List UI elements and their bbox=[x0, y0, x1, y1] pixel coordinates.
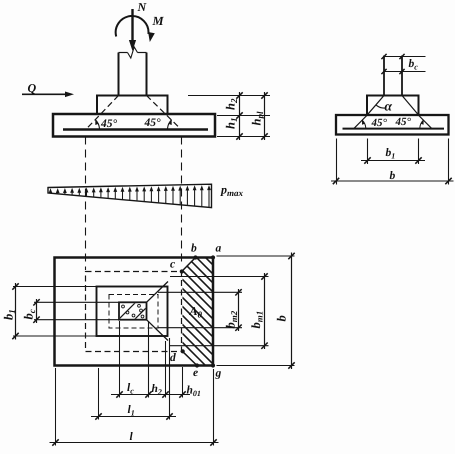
svg-text:α: α bbox=[385, 99, 393, 114]
punching face trapezoid upper slant bbox=[147, 282, 169, 303]
svg-text:l1: l1 bbox=[128, 404, 135, 418]
extension line column right bbox=[148, 321, 150, 398]
svg-text:a: a bbox=[216, 243, 222, 255]
pedestal outline (right) bbox=[367, 96, 419, 116]
svg-text:45°: 45° bbox=[100, 118, 118, 130]
extension line slab top bbox=[217, 115, 270, 117]
extension line pedestal top bbox=[188, 95, 270, 97]
dimension line bm1 bbox=[264, 273, 266, 349]
svg-text:h1: h1 bbox=[224, 118, 240, 129]
dimension line l1 bbox=[91, 416, 176, 418]
extension line footing left bbox=[55, 368, 57, 446]
svg-text:45°: 45° bbox=[144, 117, 162, 129]
extension line section c-d bbox=[182, 367, 184, 398]
dimension line b1 (right elev) bbox=[361, 160, 425, 162]
soil pressure diagram outline bbox=[48, 184, 212, 207]
angle alpha arc bbox=[376, 105, 386, 108]
svg-text:b: b bbox=[390, 170, 396, 182]
dashed projection line right bbox=[181, 137, 183, 265]
extension line bottom edge b bbox=[217, 365, 295, 367]
svg-text:lc: lc bbox=[127, 382, 134, 396]
node c bbox=[180, 269, 184, 273]
plan: pedestal outline bbox=[97, 287, 168, 337]
plan: column cross-section bbox=[119, 302, 147, 319]
extension lines column width bc bbox=[34, 301, 119, 303]
svg-text:b1: b1 bbox=[2, 309, 18, 320]
dimension line b1 (plan left) bbox=[15, 283, 17, 340]
dimension line bc upper bbox=[384, 56, 426, 58]
soil pressure arrows bbox=[50, 191, 52, 193]
extension lines bm1 bbox=[170, 276, 269, 278]
svg-text:e: e bbox=[193, 367, 198, 379]
svg-text:N: N bbox=[137, 0, 148, 14]
punching face trapezoid lower slant bbox=[147, 320, 169, 341]
dimension line b (plan right) bbox=[291, 253, 293, 370]
node a bbox=[211, 255, 215, 259]
bottom reinforcement line bbox=[63, 128, 208, 130]
svg-text:h2: h2 bbox=[224, 98, 240, 110]
extension line l1 right bbox=[169, 338, 171, 420]
svg-text:hpl: hpl bbox=[250, 111, 266, 125]
svg-text:h2: h2 bbox=[152, 383, 162, 397]
slab 45 line left (right elev) bbox=[354, 115, 368, 129]
column section hatching bbox=[112, 298, 163, 331]
dimension line hpl bbox=[264, 92, 266, 140]
svg-text:45°: 45° bbox=[371, 117, 388, 129]
dimension line bc (plan left) bbox=[36, 299, 38, 323]
column break symbol at cut bbox=[119, 52, 128, 54]
svg-text:b: b bbox=[275, 315, 289, 321]
extension lines b1 (right elev) bbox=[367, 139, 369, 165]
45-deg punching line left (dashed) bbox=[86, 96, 119, 130]
slab outline (right) bbox=[336, 115, 449, 135]
angle arc 45 right (right elev) bbox=[420, 120, 424, 128]
svg-text:pmax: pmax bbox=[220, 183, 244, 199]
extension lines pedestal width b1 bbox=[13, 286, 97, 288]
hatched design area A0 bbox=[160, 194, 225, 412]
45-deg punching line right (dashed) bbox=[147, 96, 182, 130]
node d bbox=[181, 349, 185, 353]
extension lines bm2 bbox=[158, 291, 242, 293]
dashed projection line left bbox=[85, 137, 87, 271]
plan: dashed punching base contour bbox=[86, 272, 182, 352]
svg-text:bc: bc bbox=[409, 58, 419, 72]
extension line l1 left bbox=[98, 368, 100, 420]
angle arc right 45deg bbox=[168, 120, 172, 130]
svg-text:g: g bbox=[215, 368, 222, 380]
extension line footing right bbox=[213, 369, 215, 446]
svg-text:bc: bc bbox=[22, 309, 38, 319]
column shaft (left elevation) bbox=[118, 53, 120, 96]
edge d-e of area A0 bbox=[183, 352, 198, 366]
plan: footing outline l x b bbox=[55, 258, 214, 366]
svg-text:h01: h01 bbox=[187, 385, 201, 399]
svg-text:b: b bbox=[191, 243, 197, 255]
extension line punching face bbox=[165, 341, 167, 398]
node g bbox=[211, 363, 215, 367]
svg-text:l: l bbox=[130, 431, 134, 443]
extension lines b (right elev) bbox=[336, 139, 338, 185]
svg-text:M: M bbox=[152, 14, 165, 28]
axial force N arrow bbox=[131, 9, 133, 43]
svg-text:b1: b1 bbox=[386, 147, 396, 161]
dimension line b (right elev) bbox=[331, 180, 454, 182]
edge b-c of area A0 bbox=[182, 258, 196, 272]
base slab (lower step) outline bbox=[53, 114, 215, 137]
svg-text:45°: 45° bbox=[395, 116, 412, 128]
dimension line bc lower bbox=[384, 71, 426, 73]
angle arc 45 left (right elev) bbox=[362, 120, 366, 128]
extension line top edge b bbox=[217, 255, 295, 257]
plan: dashed upper punching contour bbox=[109, 295, 158, 329]
pedestal (upper step) outline bbox=[97, 96, 168, 115]
slab 45 line right (right elev) bbox=[418, 115, 432, 129]
horizontal force Q arrow bbox=[22, 93, 67, 95]
dimension line bm2 bbox=[238, 289, 240, 331]
svg-text:Q: Q bbox=[28, 81, 37, 95]
dimension line l bbox=[50, 442, 219, 444]
node b bbox=[193, 255, 197, 259]
column shaft (right elevation) bbox=[383, 56, 385, 96]
svg-text:bm1: bm1 bbox=[249, 311, 265, 329]
svg-text:c: c bbox=[170, 259, 175, 271]
extension line slab bottom bbox=[217, 136, 270, 138]
dimension line lc h2 h01 bbox=[111, 394, 190, 396]
svg-text:d: d bbox=[170, 352, 176, 364]
pyramid slope left (right elev) bbox=[367, 96, 384, 115]
pyramid slope right (right elev) bbox=[402, 96, 418, 115]
extension line column left bbox=[119, 321, 121, 398]
dimension line h2/h1 bbox=[239, 92, 241, 140]
section: left elevation of stepped footing bbox=[0, 0, 1, 1]
reinforcement line (right) bbox=[343, 128, 445, 130]
moment M arc arrow bbox=[116, 16, 149, 37]
angle arc left 45deg bbox=[95, 120, 99, 130]
node e bbox=[195, 363, 199, 367]
svg-text:bm2: bm2 bbox=[224, 310, 240, 328]
